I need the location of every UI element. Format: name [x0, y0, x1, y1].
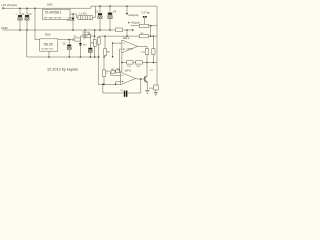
svg-text:DA1: DA1: [47, 2, 53, 6]
resistor R14: [150, 85, 159, 93]
svg-text:GND: GND: [1, 26, 7, 30]
svg-text:R13: R13: [136, 66, 141, 68]
capacitor C2: [25, 8, 32, 30]
transistor VT2: [145, 62, 148, 82]
svg-text:+12 V(input): +12 V(input): [1, 3, 17, 7]
svg-text:R3: R3: [91, 42, 95, 44]
resistor R5: [103, 36, 110, 57]
wire opamp1 out: [136, 78, 145, 81]
label +5 out: [128, 22, 130, 24]
svg-text:DA4.2: DA4.2: [123, 37, 130, 40]
wire opamp1 plus input: [111, 74, 121, 76]
wire vt2 emitter gnd: [146, 82, 148, 90]
regulator DA1 box: [43, 9, 70, 19]
svg-text:C1: C1: [21, 13, 25, 16]
svg-text:R10: R10: [116, 68, 119, 70]
wire lower left drop: [97, 57, 99, 84]
svg-text:"12" fan: "12" fan: [141, 12, 150, 15]
svg-text:IN GND OUT: IN GND OUT: [42, 48, 55, 50]
svg-text:R2 10k: R2 10k: [83, 32, 91, 34]
wire 78L05 input: [35, 8, 40, 39]
node gnd out arrow: [132, 29, 134, 32]
lower bus: [122, 53, 157, 63]
wire input rail: [3, 7, 92, 9]
resistor R11: [152, 36, 155, 62]
svg-text:VD1: VD1: [67, 17, 72, 19]
wire L1 out: [93, 6, 96, 18]
svg-text:XL4005E1: XL4005E1: [45, 11, 62, 15]
fan connector X1: [143, 16, 147, 24]
LED HL1: [79, 36, 88, 57]
svg-text:C3: C3: [95, 10, 99, 14]
resistor R7: [131, 24, 158, 27]
wire right border: [156, 6, 158, 85]
resistor R10: [145, 46, 148, 62]
resistor R4: [97, 36, 100, 57]
svg-text:R8: R8: [111, 69, 113, 71]
wire pot drop: [84, 30, 86, 36]
svg-text:SS34: SS34: [67, 20, 73, 22]
svg-text:L1 47u: L1 47u: [80, 12, 88, 15]
pot R2: [80, 32, 94, 39]
svg-text:R11: R11: [141, 52, 145, 54]
svg-text:C2: C2: [28, 13, 32, 16]
ground rail: [3, 29, 132, 31]
capacitor C4: [108, 6, 117, 30]
capacitor C6: [88, 36, 92, 57]
resistor R9: [139, 34, 157, 37]
resistor R12: [127, 61, 133, 64]
wire +12 out drop: [126, 6, 128, 13]
resistor R3: [91, 30, 96, 57]
resistor R13: [136, 61, 143, 64]
junction dots: [19, 5, 154, 85]
ground sym right: [154, 93, 158, 96]
op-amp DA4.2: [122, 37, 138, 53]
bottom rail: [98, 83, 121, 85]
svg-text:C9: C9: [120, 90, 123, 92]
ground sym mid: [145, 90, 149, 93]
svg-text:+5(out): +5(out): [131, 21, 140, 25]
wire cap branch: [103, 84, 141, 93]
svg-text:DA2: DA2: [45, 33, 51, 37]
svg-text:R5: R5: [107, 52, 111, 54]
svg-text:VIN GND FB SW: VIN GND FB SW: [44, 17, 62, 19]
svg-text:LM358: LM358: [127, 48, 134, 50]
capacitor C7: [124, 91, 128, 97]
feedback resistors RA RB: [111, 62, 122, 75]
connector X2: [72, 36, 80, 41]
wire 5V out: [58, 39, 72, 41]
capacitor C3: [95, 6, 102, 30]
svg-text:+: +: [15, 13, 17, 16]
svg-text:HL1: HL1: [83, 45, 88, 47]
svg-text:DA4.1: DA4.1: [125, 70, 132, 73]
wire fan drop: [150, 26, 152, 36]
svg-text:C4: C4: [113, 9, 117, 13]
diode VD1: [67, 14, 75, 30]
shunt resistor R8: [116, 28, 123, 31]
wire opamp1 minus input: [116, 82, 121, 85]
wire SW out: [70, 14, 78, 18]
wire opamp2 out: [138, 45, 148, 47]
thermistor RK1: [103, 57, 108, 84]
regulator DA2 box: [40, 39, 58, 51]
svg-text:78L05: 78L05: [43, 43, 53, 47]
svg-text:C5: C5: [63, 42, 67, 45]
wire DA2 gnd pin: [48, 51, 50, 57]
node input arrow: [3, 7, 5, 10]
inductor L1: [78, 12, 93, 19]
wire output rail step: [91, 6, 157, 8]
node +12 out arrow: [126, 13, 129, 15]
wire opamp2 minus input: [120, 49, 122, 72]
wire ground drop left: [27, 30, 98, 57]
op-amp DA4.1: [121, 70, 136, 85]
svg-text:VT2: VT2: [150, 70, 155, 72]
svg-text:R12: R12: [127, 66, 132, 68]
svg-text:+12(out): +12(out): [128, 13, 139, 17]
wire vt2 base drop: [140, 79, 142, 93]
wire opamp2 plus input: [113, 43, 122, 57]
svg-text:12.2013 by kayars: 12.2013 by kayars: [47, 68, 78, 72]
wire sense row: [99, 30, 140, 36]
capacitor C1: [15, 8, 25, 30]
capacitor C5: [63, 40, 72, 57]
